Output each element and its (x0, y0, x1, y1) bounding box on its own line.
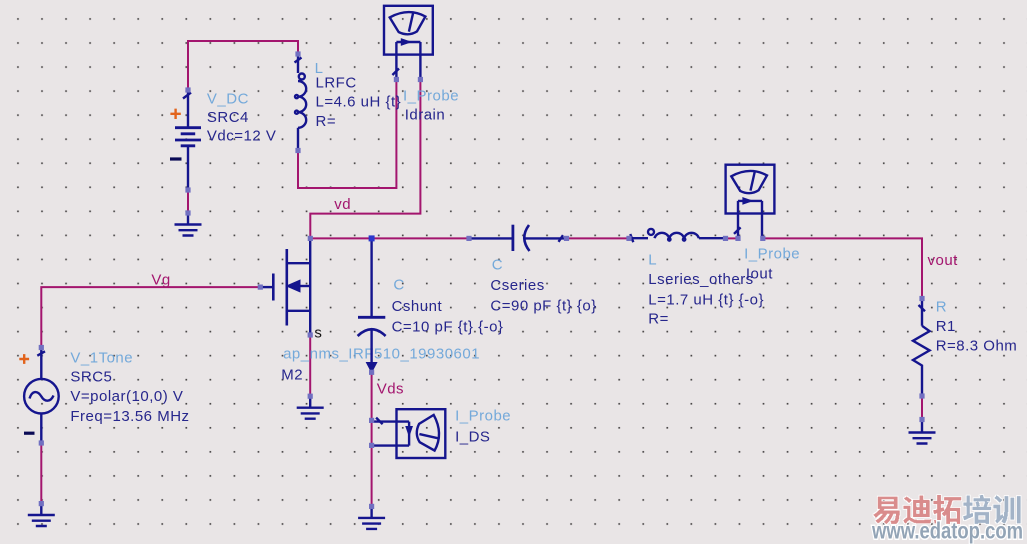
label C Cshunt C=10 pF {t} {-o} (392, 277, 504, 336)
inductor LRFC (295, 54, 307, 151)
svg-text:Lseries_others: Lseries_others (648, 271, 753, 288)
svg-text:Freq=13.56 MHz: Freq=13.56 MHz (70, 408, 189, 425)
svg-text:I_Probe: I_Probe (403, 88, 459, 105)
junction node on drain rail at Cshunt (369, 235, 375, 241)
ground below I_Probe I_DS wire (358, 506, 385, 529)
svg-text:L: L (648, 252, 657, 269)
svg-text:www.edatop.com: www.edatop.com (871, 518, 1023, 544)
wire Vds: Cshunt bottom through I_Probe I_DS to ground node (371, 372, 373, 506)
svg-text:vd: vd (334, 196, 351, 213)
svg-text:L=4.6 uH {t}: L=4.6 uH {t} (316, 94, 402, 111)
svg-text:s: s (314, 325, 322, 342)
transistor M2 MOSFET (260, 240, 310, 334)
svg-text:LRFC: LRFC (316, 75, 357, 92)
dc voltage source V_DC SRC4 (170, 91, 201, 189)
svg-text:V_1Tone: V_1Tone (70, 350, 133, 367)
svg-text:M2: M2 (281, 367, 303, 384)
svg-text:Cseries: Cseries (490, 277, 544, 294)
watermark (871, 495, 1023, 543)
wire V_DC minus terminal to ground node (187, 190, 189, 213)
svg-text:Idrain: Idrain (405, 107, 446, 124)
ground below V_1Tone (28, 504, 55, 526)
svg-text:V=polar(10,0) V: V=polar(10,0) V (70, 388, 183, 405)
wire vout: I_Probe Iout to R1 (763, 238, 922, 298)
ground below MOSFET source (297, 396, 324, 419)
label V_DC SRC4 Vdc=12 V (207, 91, 276, 145)
ground below R1 (909, 420, 936, 444)
ground below V_DC (175, 213, 202, 236)
svg-text:I_DS: I_DS (455, 429, 490, 446)
wire from V_DC plus terminal up and over to LRFC top (188, 41, 298, 90)
svg-text:I_Probe: I_Probe (744, 246, 800, 263)
label I_Probe I_DS (455, 408, 511, 446)
wire Cseries to Lseries_others (567, 237, 630, 239)
svg-text:SRC4: SRC4 (207, 109, 249, 126)
inductor Lseries_others (629, 229, 726, 242)
label L Lseries_others L=1.7 uH {t} {-o} R= (648, 252, 764, 328)
svg-text:Vg: Vg (151, 272, 170, 289)
svg-text:Vdc=12 V: Vdc=12 V (207, 128, 276, 145)
svg-text:R: R (936, 299, 947, 316)
wire LRFC bottom around to I_Probe Idrain input pin (298, 80, 396, 189)
capacitor Cseries (469, 225, 567, 251)
current probe I_Probe Iout (726, 165, 775, 238)
svg-text:vout: vout (928, 252, 959, 269)
svg-text:SRC5: SRC5 (70, 369, 112, 386)
svg-text:I_Probe: I_Probe (455, 408, 511, 425)
current probe I_Probe Idrain (384, 6, 433, 79)
svg-text:C=90 pF {t} {o}: C=90 pF {t} {o} (490, 298, 596, 315)
svg-text:ap_nms_IRF510_19930601: ap_nms_IRF510_19930601 (283, 346, 480, 363)
resistor R1 (913, 300, 930, 397)
label L LRFC L=4.6 uH {t} R= (315, 60, 402, 130)
svg-text:C: C (492, 257, 503, 274)
ac source V_1Tone SRC5 (19, 348, 58, 443)
svg-text:Iout: Iout (746, 266, 773, 283)
wire R1 bottom to ground node (921, 396, 923, 420)
label C Cseries C=90 pF {t} {o} (490, 257, 596, 315)
capacitor Cshunt (358, 240, 386, 371)
wire MOSFET source to ground node (309, 335, 311, 396)
svg-text:V_DC: V_DC (207, 91, 249, 108)
current probe I_Probe I_DS (rotated) (372, 409, 445, 458)
wire Lseries_others to I_Probe Iout (726, 237, 739, 239)
svg-text:R1: R1 (936, 318, 956, 335)
svg-text:L=1.7 uH {t} {-o}: L=1.7 uH {t} {-o} (648, 292, 764, 309)
wire V_1Tone bottom to ground node (40, 443, 42, 504)
svg-text:R=: R= (316, 113, 337, 130)
node squares at component pins (39, 51, 925, 509)
label I_Probe Idrain (403, 88, 459, 124)
wire vd: I_Probe Idrain output down and over to drain node (310, 80, 420, 239)
svg-text:Vds: Vds (377, 381, 404, 398)
label I_Probe Iout (744, 246, 800, 283)
label V_1Tone SRC5 V=polar(10,0) V Freq=13.56 MHz (70, 350, 189, 426)
svg-text:R=8.3 Ohm: R=8.3 Ohm (936, 338, 1018, 355)
wire drain rail to Cseries (310, 237, 469, 239)
svg-text:Cshunt: Cshunt (392, 298, 443, 315)
svg-text:C=10 pF {t} {-o}: C=10 pF {t} {-o} (392, 319, 504, 336)
label R R1 R=8.3 Ohm (936, 299, 1018, 355)
wire Vg: V_1Tone top to MOSFET gate (41, 287, 260, 347)
svg-text:C: C (393, 277, 404, 294)
svg-text:R=: R= (648, 311, 669, 328)
label ap_nms_IRF510_19930601 M2 (281, 346, 480, 384)
